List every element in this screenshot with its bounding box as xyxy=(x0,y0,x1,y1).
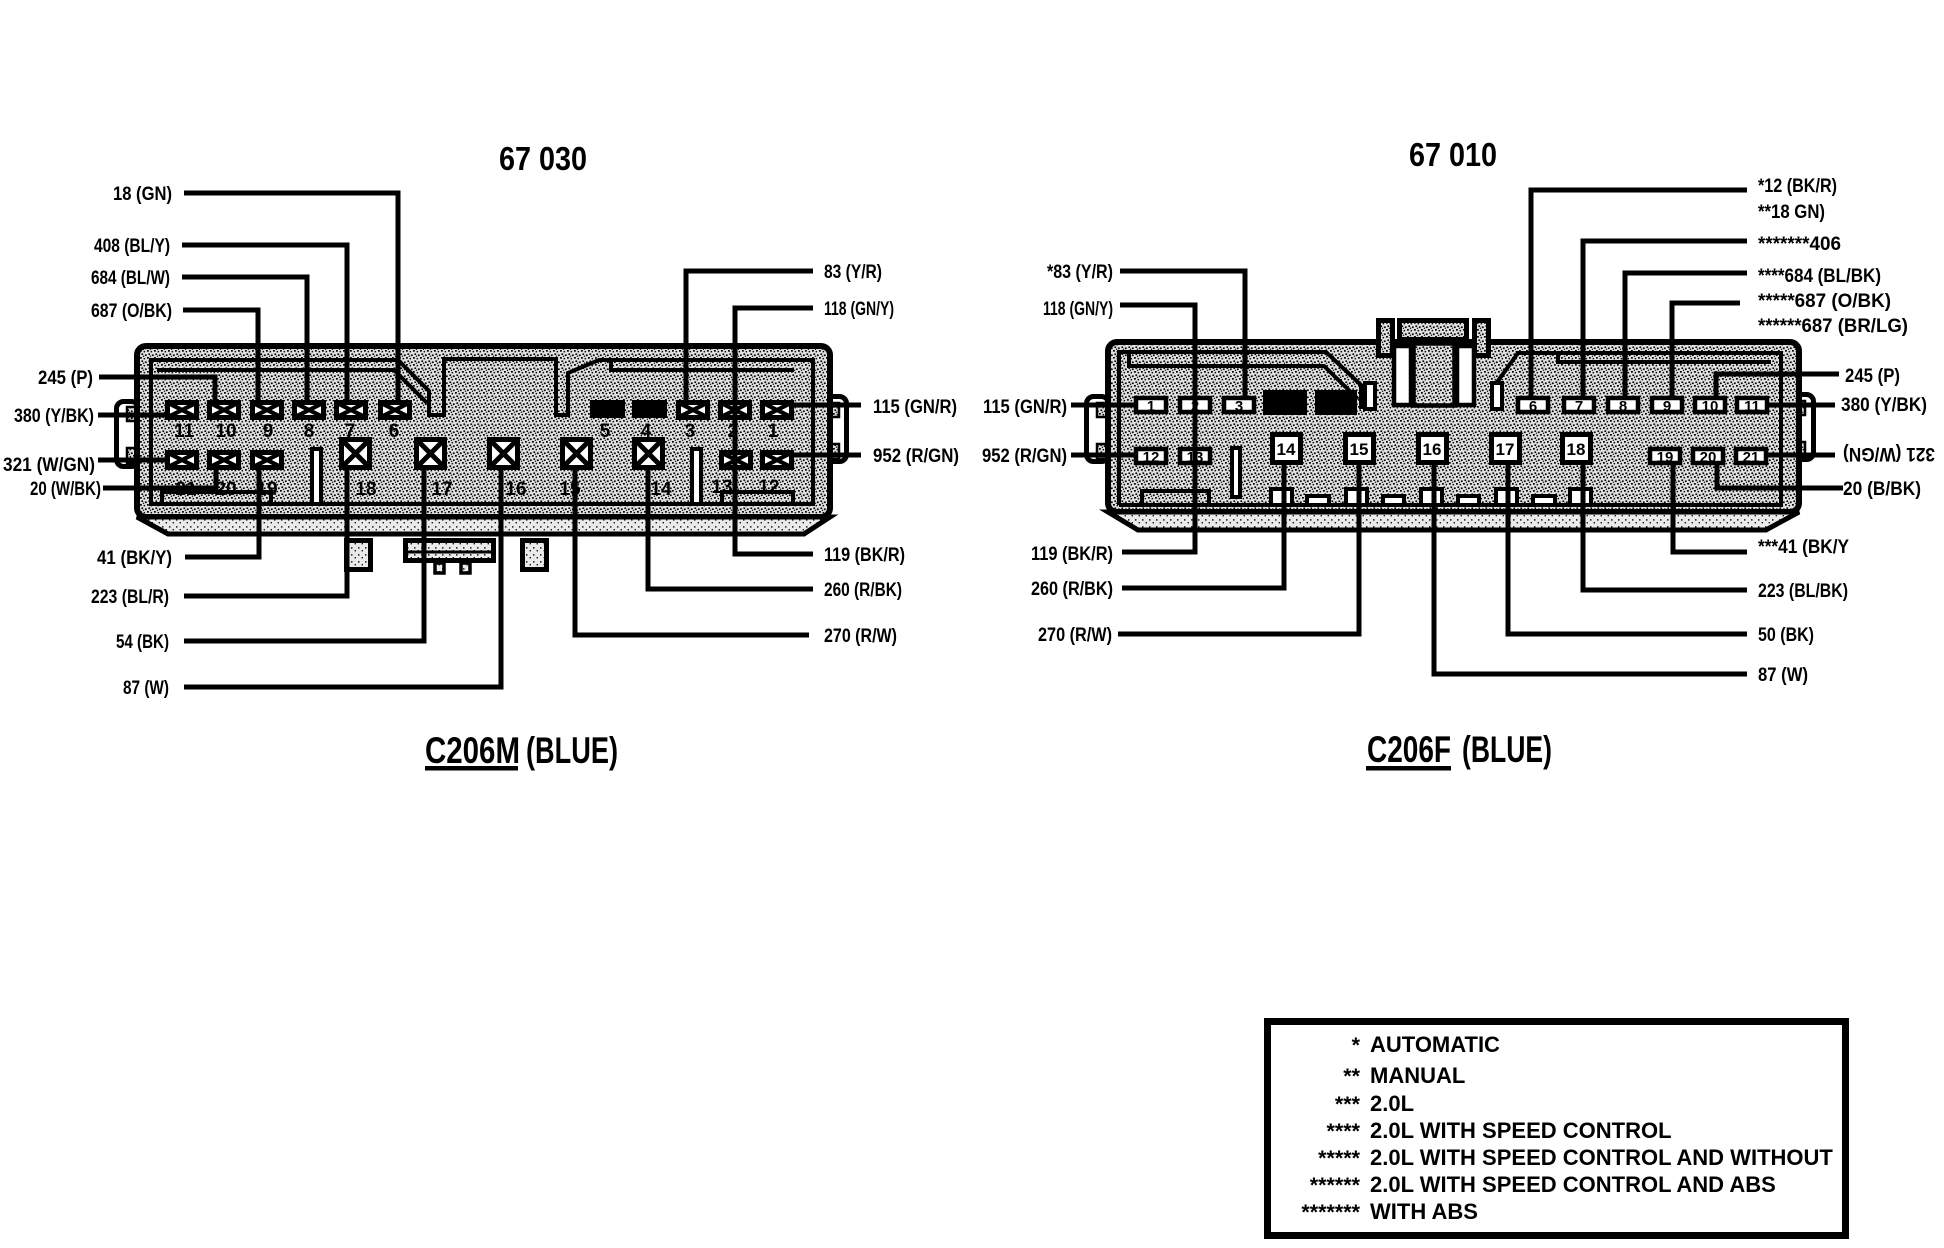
legend line ** MANUAL xyxy=(1343,1063,1465,1088)
pin 17 C206F xyxy=(1492,435,1520,463)
svg-text:6: 6 xyxy=(1529,398,1537,415)
pin 13 C206M xyxy=(722,453,751,468)
wire 321 (W/GN) to pin 21 xyxy=(1764,453,1835,458)
pin 17 C206M xyxy=(417,440,445,468)
connector C206F center latch cap xyxy=(1400,321,1467,340)
pin 15 C206F xyxy=(1346,435,1374,463)
svg-text:*****: ***** xyxy=(1318,1146,1360,1170)
svg-text:5: 5 xyxy=(600,421,611,442)
wire 687 (O/BK) to pin 9 xyxy=(183,310,258,400)
wire 119 (BK/R) to pin 13 xyxy=(1122,400,1195,552)
svg-text:14: 14 xyxy=(650,479,672,500)
svg-text:684 (BL/W): 684 (BL/W) xyxy=(91,267,170,289)
wire 54 (BK) to pin 17 xyxy=(184,468,424,641)
wire 952 (R/GN) to pin 12 xyxy=(1071,453,1138,458)
svg-text:***41 (BK/Y: ***41 (BK/Y xyxy=(1758,536,1849,558)
pin 12 C206F xyxy=(1136,449,1166,466)
pin 15 C206M xyxy=(563,440,591,468)
wire 41 (BK/Y) to pin 19 xyxy=(185,468,259,557)
connector C206F inner ridge second line right xyxy=(1558,353,1771,362)
svg-text:10: 10 xyxy=(1702,398,1719,415)
svg-text:7: 7 xyxy=(1575,398,1583,415)
wire 406 to pin 7 xyxy=(1583,241,1747,398)
wire 119 (BK/R) to pin 13 xyxy=(735,402,813,554)
svg-text:8: 8 xyxy=(1619,398,1627,415)
svg-text:9: 9 xyxy=(263,421,274,442)
connector C206M divider slot left xyxy=(312,449,321,504)
svg-text:WITH ABS: WITH ABS xyxy=(1370,1199,1478,1224)
pin 10 C206F xyxy=(1695,398,1725,415)
svg-text:14: 14 xyxy=(1277,440,1296,459)
svg-text:16: 16 xyxy=(505,479,526,500)
pin 4 C206M blocked xyxy=(632,400,667,418)
connector C206F inner ridge outline right section xyxy=(1119,353,1781,505)
svg-text:119 (BK/R): 119 (BK/R) xyxy=(824,544,905,566)
svg-text:(BLUE): (BLUE) xyxy=(526,730,618,771)
svg-text:380 (Y/BK): 380 (Y/BK) xyxy=(14,405,94,427)
pin 6 C206F xyxy=(1518,398,1548,415)
wire 380 (Y/BK) to pin 11 xyxy=(1765,403,1835,408)
wire 115 (GN/R) to pin 1 xyxy=(792,403,861,408)
pin 7 C206F xyxy=(1564,398,1594,415)
connector C206F center latch left tower xyxy=(1379,321,1393,356)
pin 9 C206M xyxy=(253,403,282,418)
connector C206F right latch xyxy=(1792,395,1814,460)
pin 8 C206M xyxy=(295,403,324,418)
pin 20 C206F xyxy=(1693,449,1723,466)
svg-text:18: 18 xyxy=(1567,440,1586,459)
pin 18 C206F xyxy=(1563,435,1591,463)
connector C206F center latch column xyxy=(1414,344,1455,406)
svg-text:MANUAL: MANUAL xyxy=(1370,1063,1465,1088)
wire 20 (B/BK) to pin 20 xyxy=(1717,461,1843,488)
connector C206M bottom cavity below pins 13-12 xyxy=(722,492,793,504)
wire 687 to pin 9 xyxy=(1672,303,1740,398)
legend line * AUTOMATIC xyxy=(1352,1032,1500,1057)
svg-text:1: 1 xyxy=(768,421,779,442)
svg-text:******: ****** xyxy=(1310,1173,1361,1197)
svg-text:3: 3 xyxy=(1235,398,1243,415)
bottom tab 2 C206M xyxy=(523,541,547,570)
pin 12 C206M xyxy=(763,453,792,468)
legend line *** 2.0L xyxy=(1335,1091,1414,1116)
svg-text:12: 12 xyxy=(758,477,779,498)
svg-text:C206M: C206M xyxy=(425,730,520,771)
svg-text:41 (BK/Y): 41 (BK/Y) xyxy=(97,547,172,569)
pin 3 C206F xyxy=(1224,398,1254,415)
bottom center block C206M xyxy=(406,541,494,561)
wire 260 (R/BK) to pin 14 xyxy=(1122,461,1284,588)
svg-text:*12 (BK/R): *12 (BK/R) xyxy=(1758,175,1837,197)
wire *83 (Y/R) to pin 3 xyxy=(1120,271,1245,396)
svg-text:5: 5 xyxy=(1332,397,1341,414)
wire 223 (BL/R) to pin 18 xyxy=(184,468,347,596)
pin 1 C206M xyxy=(763,403,792,418)
wire 223 (BL/BK) to pin 18 xyxy=(1583,461,1747,590)
svg-text:*83 (Y/R): *83 (Y/R) xyxy=(1047,261,1113,283)
pin 10 C206M xyxy=(210,403,239,418)
wire 408 (BL/Y) to pin 7 xyxy=(182,245,347,400)
svg-text:115 (GN/R): 115 (GN/R) xyxy=(983,396,1067,418)
svg-text:11: 11 xyxy=(174,421,195,442)
svg-text:16: 16 xyxy=(1423,440,1442,459)
wire 115 (GN/R) to pin 1 xyxy=(1071,403,1138,408)
svg-text:2.0L WITH SPEED CONTROL AND WI: 2.0L WITH SPEED CONTROL AND WITHOUT xyxy=(1370,1145,1833,1170)
pin 2 C206M xyxy=(721,403,750,418)
connector C206F center latch right tower xyxy=(1475,321,1489,356)
svg-text:270 (R/W): 270 (R/W) xyxy=(824,625,897,647)
svg-text:*: * xyxy=(1352,1033,1361,1057)
wire 118 (GN/Y) to pin 2 xyxy=(1120,305,1195,396)
svg-text:****684 (BL/BK): ****684 (BL/BK) xyxy=(1758,265,1881,287)
svg-text:8: 8 xyxy=(304,421,315,442)
pin 5 C206M blocked xyxy=(590,400,625,418)
svg-text:321 (W/GN): 321 (W/GN) xyxy=(1843,443,1935,465)
svg-text:50 (BK): 50 (BK) xyxy=(1758,624,1814,646)
wire 270 (R/W) to pin 15 xyxy=(575,468,809,635)
svg-text:9: 9 xyxy=(1663,398,1671,415)
wire ***41 (BK/Y) to pin 19 xyxy=(1673,461,1747,552)
connector C206F inner ridge second line left xyxy=(1129,352,1358,399)
svg-text:118 (GN/Y): 118 (GN/Y) xyxy=(1043,298,1113,320)
wire 118 (GN/Y) to pin 2 xyxy=(735,308,813,400)
pin number labels row2 C206M xyxy=(175,477,779,500)
wire 245 (P) to pin 10 xyxy=(1716,374,1839,398)
pin 2 C206F xyxy=(1180,398,1210,415)
connector C206F left latch xyxy=(1087,397,1109,462)
svg-text:7: 7 xyxy=(345,421,356,442)
pin 11 C206M xyxy=(168,403,197,418)
connector C206F center slot left xyxy=(1394,346,1411,405)
svg-text:1: 1 xyxy=(1147,398,1155,415)
wire 83 (Y/R) to pin 3 xyxy=(686,271,813,400)
wire 50 (BK) to pin 17 xyxy=(1508,461,1747,634)
connector C206M bottom flange xyxy=(137,517,830,534)
svg-text:6: 6 xyxy=(389,421,400,442)
wire 245 (P) to pin 10 xyxy=(99,377,215,400)
wire 87 (W) to pin 16 xyxy=(1434,461,1747,674)
connector C206M right latch xyxy=(826,397,847,462)
pin 20 C206M xyxy=(210,453,239,468)
wire 270 (R/W) to pin 15 xyxy=(1118,461,1359,634)
connector C206M left latch xyxy=(117,402,139,467)
svg-text:245 (P): 245 (P) xyxy=(1845,365,1900,387)
connector C206F flank slot left xyxy=(1365,383,1375,409)
svg-text:20: 20 xyxy=(1700,449,1717,466)
svg-text:20 (B/BK): 20 (B/BK) xyxy=(1843,478,1921,500)
svg-text:223 (BL/BK): 223 (BL/BK) xyxy=(1758,580,1848,602)
wire 260 (R/BK) to pin 14 xyxy=(648,468,813,589)
svg-text:952 (R/GN): 952 (R/GN) xyxy=(873,445,959,467)
svg-text:67 030: 67 030 xyxy=(499,140,587,177)
pin 8 C206F xyxy=(1608,398,1638,415)
pin 14 C206M xyxy=(635,440,663,468)
svg-text:C206F: C206F xyxy=(1367,729,1451,770)
connector C206M bottom step notch left xyxy=(162,492,271,504)
pin number labels row1 C206M xyxy=(174,421,779,442)
connector C206F bottom cavity row xyxy=(1271,489,1591,505)
wire 18 (GN) to pin 6 xyxy=(184,193,398,400)
pin 19 C206F xyxy=(1650,449,1680,466)
svg-text:118 (GN/Y): 118 (GN/Y) xyxy=(824,298,894,320)
svg-text:AUTOMATIC: AUTOMATIC xyxy=(1370,1032,1500,1057)
svg-text:83 (Y/R): 83 (Y/R) xyxy=(824,261,882,283)
pin 1 C206F xyxy=(1136,398,1166,415)
svg-text:2.0L WITH SPEED CONTROL AND AB: 2.0L WITH SPEED CONTROL AND ABS xyxy=(1370,1172,1776,1197)
svg-text:******687 (BR/LG): ******687 (BR/LG) xyxy=(1758,315,1908,337)
svg-text:952 (R/GN): 952 (R/GN) xyxy=(982,445,1067,467)
connector C206M body xyxy=(137,346,830,517)
bottom tab 1 C206M xyxy=(347,541,371,570)
connector C206M divider slot right xyxy=(692,449,701,504)
svg-text:2.0L WITH SPEED CONTROL: 2.0L WITH SPEED CONTROL xyxy=(1370,1118,1672,1143)
wire 684 (BL/BK) to pin 8 xyxy=(1625,273,1747,398)
svg-text:**: ** xyxy=(1343,1064,1360,1088)
pin 16 C206F xyxy=(1419,435,1447,463)
svg-text:12: 12 xyxy=(1143,449,1160,466)
wire 380 (Y/BK) to pin 11 xyxy=(98,413,168,418)
svg-text:687 (O/BK): 687 (O/BK) xyxy=(91,300,172,322)
svg-text:380 (Y/BK): 380 (Y/BK) xyxy=(1841,394,1927,416)
connector C206F flank slot right xyxy=(1492,383,1502,409)
svg-text:20 (W/BK): 20 (W/BK) xyxy=(30,478,101,500)
svg-text:17: 17 xyxy=(431,479,452,500)
pin 5 C206F blocked xyxy=(1315,390,1357,415)
svg-text:4: 4 xyxy=(641,421,652,442)
wire 321 (W/GN) to pin 21 xyxy=(98,458,168,463)
svg-text:87 (W): 87 (W) xyxy=(123,677,169,699)
svg-text:21: 21 xyxy=(1743,449,1760,466)
connector C206M inner ridge outline xyxy=(151,359,813,504)
svg-text:*******: ******* xyxy=(1301,1200,1360,1224)
svg-text:2.0L: 2.0L xyxy=(1370,1091,1414,1116)
connector C206F bottom flange xyxy=(1108,512,1799,530)
connector C206M inner ridge second line left xyxy=(157,370,427,403)
svg-text:10: 10 xyxy=(215,421,236,442)
svg-text:87 (W): 87 (W) xyxy=(1758,664,1808,686)
connector C206M inner ridge second line right xyxy=(611,361,794,370)
pin 14 C206F xyxy=(1273,435,1301,463)
svg-text:18: 18 xyxy=(355,479,376,500)
wire 20 (W/BK) to pin 20 xyxy=(103,468,216,488)
wire *12 (BK/R) to pin 6 xyxy=(1531,190,1747,398)
pin 16 C206M xyxy=(490,440,518,468)
svg-text:223 (BL/R): 223 (BL/R) xyxy=(91,586,169,608)
svg-text:260 (R/BK): 260 (R/BK) xyxy=(1031,578,1113,600)
wire 684 (BL/W) to pin 8 xyxy=(182,277,307,400)
pin 18 C206M xyxy=(342,440,370,468)
connector C206F center slot right xyxy=(1457,346,1474,405)
connector C206F body xyxy=(1108,342,1799,512)
pin 21 C206F xyxy=(1736,449,1766,466)
connector C206F bottom cavity below pins 12-13 xyxy=(1142,491,1209,505)
pin 19 C206M xyxy=(253,453,282,468)
svg-text:3: 3 xyxy=(685,421,696,442)
legend box xyxy=(1268,1022,1846,1236)
svg-text:408 (BL/Y): 408 (BL/Y) xyxy=(94,235,170,257)
svg-text:115 (GN/R): 115 (GN/R) xyxy=(873,396,957,418)
pin 7 C206M xyxy=(337,403,366,418)
pin 21 C206M xyxy=(168,453,197,468)
connector C206F divider slot xyxy=(1232,448,1240,497)
pin 3 C206M xyxy=(679,403,708,418)
svg-text:119 (BK/R): 119 (BK/R) xyxy=(1031,543,1113,565)
svg-text:13: 13 xyxy=(711,477,732,498)
svg-text:260 (R/BK): 260 (R/BK) xyxy=(824,579,902,601)
svg-text:****: **** xyxy=(1327,1119,1361,1143)
svg-text:17: 17 xyxy=(1496,440,1515,459)
pin 9 C206F xyxy=(1652,398,1682,415)
svg-text:*****687 (O/BK): *****687 (O/BK) xyxy=(1758,290,1891,312)
svg-text:245 (P): 245 (P) xyxy=(38,367,93,389)
svg-text:54 (BK): 54 (BK) xyxy=(116,631,169,653)
svg-text:270 (R/W): 270 (R/W) xyxy=(1038,624,1112,646)
pin 6 C206M xyxy=(381,403,410,418)
svg-text:(BLUE): (BLUE) xyxy=(1462,729,1552,770)
svg-text:67 010: 67 010 xyxy=(1409,136,1497,173)
svg-text:321 (W/GN): 321 (W/GN) xyxy=(3,454,95,476)
svg-text:***: *** xyxy=(1335,1092,1361,1116)
pin 4 C206F blocked xyxy=(1263,390,1307,415)
pin 11 C206F xyxy=(1737,398,1767,415)
svg-text:15: 15 xyxy=(559,479,581,500)
svg-text:*******406: *******406 xyxy=(1758,233,1841,255)
svg-text:**18 GN): **18 GN) xyxy=(1758,201,1825,223)
svg-text:4: 4 xyxy=(1281,397,1290,414)
wire 952 (R/GN) to pin 12 xyxy=(792,453,861,458)
pin 13 C206F xyxy=(1180,449,1210,466)
svg-text:11: 11 xyxy=(1744,398,1760,415)
svg-text:18 (GN): 18 (GN) xyxy=(113,183,172,205)
svg-text:15: 15 xyxy=(1350,440,1369,459)
svg-text:20: 20 xyxy=(215,479,236,500)
connector C206F inner ridge outline left section xyxy=(1119,352,1361,505)
wire 87 (W) to pin 16 xyxy=(184,468,501,687)
